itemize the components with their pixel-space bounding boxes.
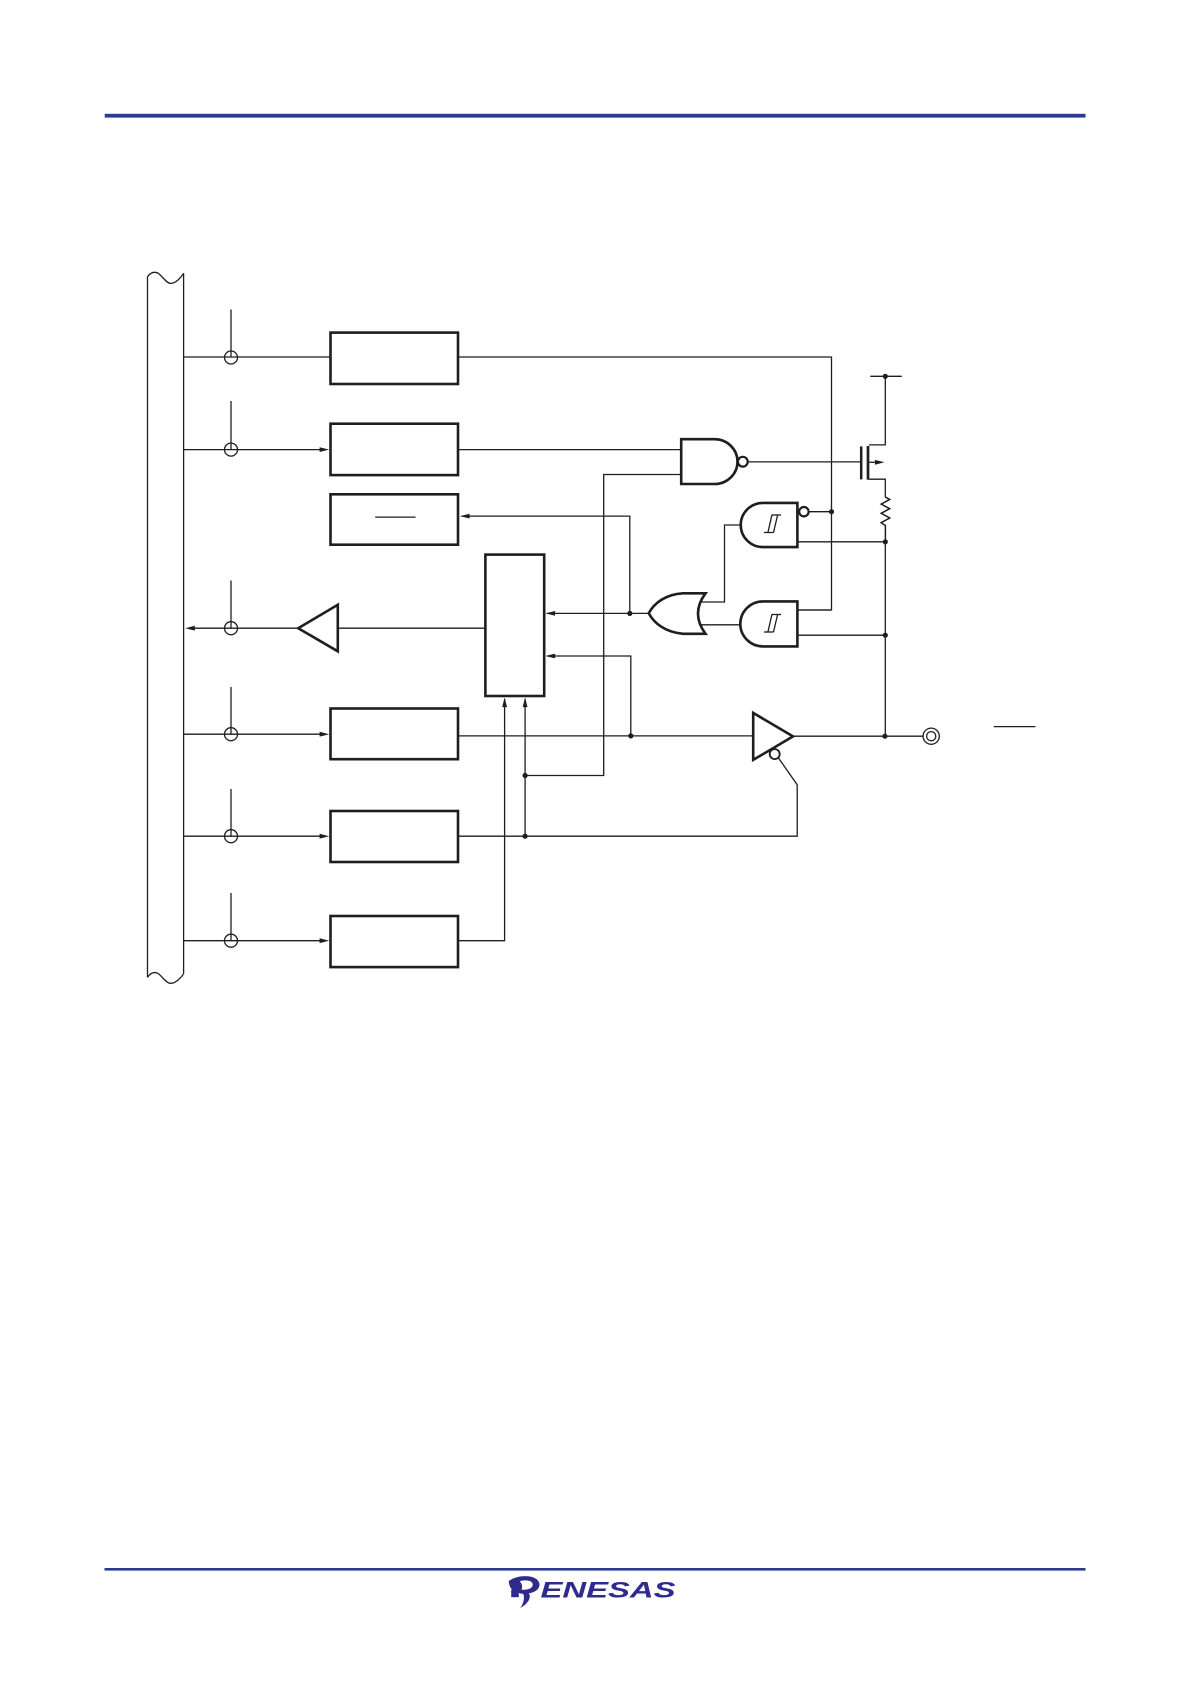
pull-up MOSFET Q1 — [861, 376, 885, 497]
wire G2 lower input from pad net — [797, 541, 885, 543]
register box B1 — [331, 333, 459, 384]
wire G3 output to OR input — [700, 624, 741, 626]
svg-text:ENESAS: ENESAS — [541, 1578, 676, 1603]
wire row1 bus to PUCR box — [184, 356, 331, 358]
wire DDR branch up to selector — [524, 699, 526, 836]
wire B4 output to output buffer — [458, 735, 753, 737]
arrow into box4 — [320, 732, 330, 737]
junction dot DDR net branch — [523, 834, 528, 839]
power rail — [870, 375, 902, 377]
wire G3 upper input from pull-up net — [797, 609, 831, 611]
wire B5 output DDR net — [458, 758, 797, 836]
pad name overbar — [994, 726, 1036, 728]
wire B6 output to selector — [458, 699, 505, 941]
arrow into selector bottom left — [502, 698, 507, 708]
arrow into box6 — [320, 938, 330, 943]
wire OR output to selector input — [547, 612, 649, 614]
wire B4 branch to selector input2 — [547, 656, 631, 736]
wire row6 bus to box6 — [184, 940, 322, 942]
selector box TB — [485, 555, 544, 696]
overbar inside box B3 — [375, 516, 415, 518]
header rule — [105, 114, 1086, 118]
pull-up resistor R1 — [881, 497, 890, 542]
NAND output bubble — [738, 457, 748, 467]
arrow into selector input1 — [546, 611, 556, 616]
junction dot pull-up net / gate G2 bubble — [829, 509, 834, 514]
wire pad net vertical — [884, 542, 886, 736]
bus tap circle row5 — [225, 789, 238, 843]
output buffer triangle U3 — [753, 713, 793, 760]
junction dot B4 output branch — [628, 733, 633, 738]
arrow into bus row3 — [185, 626, 195, 631]
arrow into box5 — [320, 834, 330, 839]
wire output buffer to pad — [793, 735, 923, 737]
arrow into box B3 — [460, 514, 470, 519]
bus tap circle row2 — [225, 401, 238, 456]
wire row4 bus to box4 — [184, 733, 322, 735]
wire G2 bubble to pull-up net — [809, 511, 832, 513]
junction dot OR output branch — [627, 611, 632, 616]
wire G2 output to OR input — [700, 525, 741, 602]
wire B1 output to pull-up control net — [458, 357, 832, 610]
register box B4 — [331, 709, 459, 760]
wire row2 bus to box2 — [184, 449, 322, 451]
pad terminal — [923, 728, 939, 744]
G2 inverted input bubble — [799, 507, 808, 516]
footer rule — [105, 1568, 1086, 1571]
junction dot pad net / G3 input — [883, 633, 888, 638]
OR gate U2 — [649, 593, 706, 634]
internal data bus — [148, 272, 184, 983]
wire NAND output to MOS gate — [748, 461, 860, 463]
arrow into selector input2 — [546, 654, 556, 659]
Renesas logo — [509, 1576, 676, 1608]
read buffer triangle — [298, 605, 338, 652]
wire selector to read buffer — [338, 627, 486, 629]
schmitt AND gate G3 — [740, 601, 797, 646]
register box B2 — [331, 424, 459, 475]
junction dot NAND-input net at DDR net — [523, 773, 528, 778]
hysteresis symbol in G2 — [764, 515, 781, 533]
bus tap circle row3 — [225, 581, 238, 635]
wire G3 lower input from pad net — [797, 634, 885, 636]
bus tap circle row6 — [225, 893, 238, 947]
junction dot resistor / G2 input — [883, 539, 888, 544]
wire row3 read buffer to bus — [194, 627, 298, 629]
wire OR output branch to box B3 — [462, 516, 630, 613]
arrow into box2 — [320, 447, 330, 452]
wire row5 bus to box5 — [184, 835, 322, 837]
register box B5 — [331, 811, 459, 862]
bus tap circle row4 — [225, 687, 238, 741]
bus tap circle row1 — [225, 310, 238, 365]
schmitt AND gate G2 — [741, 503, 798, 547]
NAND gate U1 — [681, 439, 737, 484]
register box B3 — [331, 494, 459, 544]
wire NAND lower input net — [525, 475, 681, 776]
arrow into selector bottom right — [523, 698, 528, 708]
wire B2 output to NAND input — [458, 449, 681, 451]
junction dot power rail — [883, 374, 888, 379]
register box B6 — [331, 916, 459, 967]
hysteresis symbol in G3 — [764, 615, 781, 633]
junction dot pad net at output — [882, 734, 887, 739]
output buffer enable bubble — [770, 749, 780, 759]
